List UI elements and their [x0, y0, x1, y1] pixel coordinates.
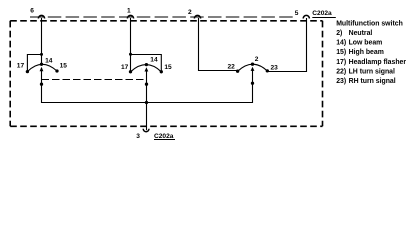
svg-text:2: 2 [255, 56, 259, 63]
svg-text:14): 14) [336, 40, 346, 47]
switch B contact 14 dot [145, 63, 148, 66]
switch A wiper pivot dot [40, 83, 43, 86]
wire: switch A wiper down to bus [42, 71, 147, 103]
svg-text:22: 22 [228, 64, 236, 71]
wire: terminal 5 feed down to contact 23 [267, 18, 306, 72]
svg-text:5: 5 [295, 10, 299, 17]
switch B contact arc 17-14-15 [131, 65, 162, 72]
terminal 2 cap [194, 15, 200, 18]
switch B wiper arrow [145, 67, 149, 71]
svg-text:15): 15) [336, 49, 346, 56]
svg-text:3: 3 [136, 133, 140, 140]
wire: branch to contact 17 (switch A) [27, 55, 41, 72]
switch C wiper pivot dot [251, 82, 254, 85]
wire: terminal 6 feed down [41, 18, 43, 64]
wire: terminal 1 feed down [130, 18, 132, 72]
switch B contact 15 dot [160, 70, 163, 73]
switch C wiper arrow [251, 67, 255, 71]
svg-text:6: 6 [30, 8, 34, 15]
switch A contact 17 dot [26, 70, 29, 73]
wire: switch C wiper down to bus [147, 70, 253, 102]
svg-text:23): 23) [336, 78, 346, 85]
terminal 5 cap [303, 15, 309, 18]
svg-text:17): 17) [336, 59, 346, 66]
svg-text:14: 14 [150, 57, 158, 64]
svg-text:17: 17 [17, 62, 25, 69]
svg-text:High beam: High beam [349, 49, 384, 56]
switch C contact 23 dot [266, 69, 269, 72]
switch A contact 14 dot [40, 63, 43, 66]
switch A contact 15 dot [55, 69, 58, 72]
terminal 3 cup [143, 129, 149, 132]
svg-text:2): 2) [336, 30, 342, 37]
wire: branch to contact 15 (switch B) [131, 55, 162, 72]
svg-text:Headlamp flasher: Headlamp flasher [349, 59, 407, 66]
switch A wiper arrow [40, 67, 44, 71]
switch B contact 17 dot [129, 70, 132, 73]
svg-text:Neutral: Neutral [349, 30, 373, 37]
switch C contact arc 22-2-23 [238, 64, 268, 71]
svg-text:2: 2 [188, 9, 192, 16]
terminal 6 cap [38, 15, 44, 18]
switch C contact 2 dot [251, 63, 254, 66]
mechanical link dashed line between wipers A and B [42, 79, 147, 81]
terminal 1 cap [127, 15, 133, 18]
svg-text:22): 22) [336, 68, 346, 75]
svg-text:LH turn signal: LH turn signal [349, 68, 395, 75]
junction dot at 17-branch of switch A [40, 53, 43, 56]
multifunction switch boundary dashed box [10, 21, 322, 127]
svg-text:23: 23 [271, 64, 279, 71]
connector C202a top dashed line [30, 16, 295, 18]
svg-text:14: 14 [45, 57, 53, 64]
svg-text:15: 15 [60, 62, 68, 69]
junction dot bus to terminal 3 [145, 101, 148, 104]
switch B wiper pivot dot [145, 83, 148, 86]
svg-text:15: 15 [164, 64, 172, 71]
switch A contact arc 17-14-15 [27, 64, 57, 71]
junction dot at 15-branch of switch B [129, 53, 132, 56]
svg-text:17: 17 [121, 64, 129, 71]
svg-text:Multifunction switch: Multifunction switch [336, 20, 403, 27]
switch C contact 22 dot [236, 70, 239, 73]
wire: switch B wiper down to terminal 3 [146, 71, 148, 130]
svg-text:C202a: C202a [312, 10, 332, 17]
svg-text:Low beam: Low beam [349, 40, 383, 47]
wire: terminal 2 feed down to contact 22 [199, 18, 238, 71]
svg-text:1: 1 [127, 8, 131, 15]
svg-text:RH turn signal: RH turn signal [349, 78, 396, 85]
